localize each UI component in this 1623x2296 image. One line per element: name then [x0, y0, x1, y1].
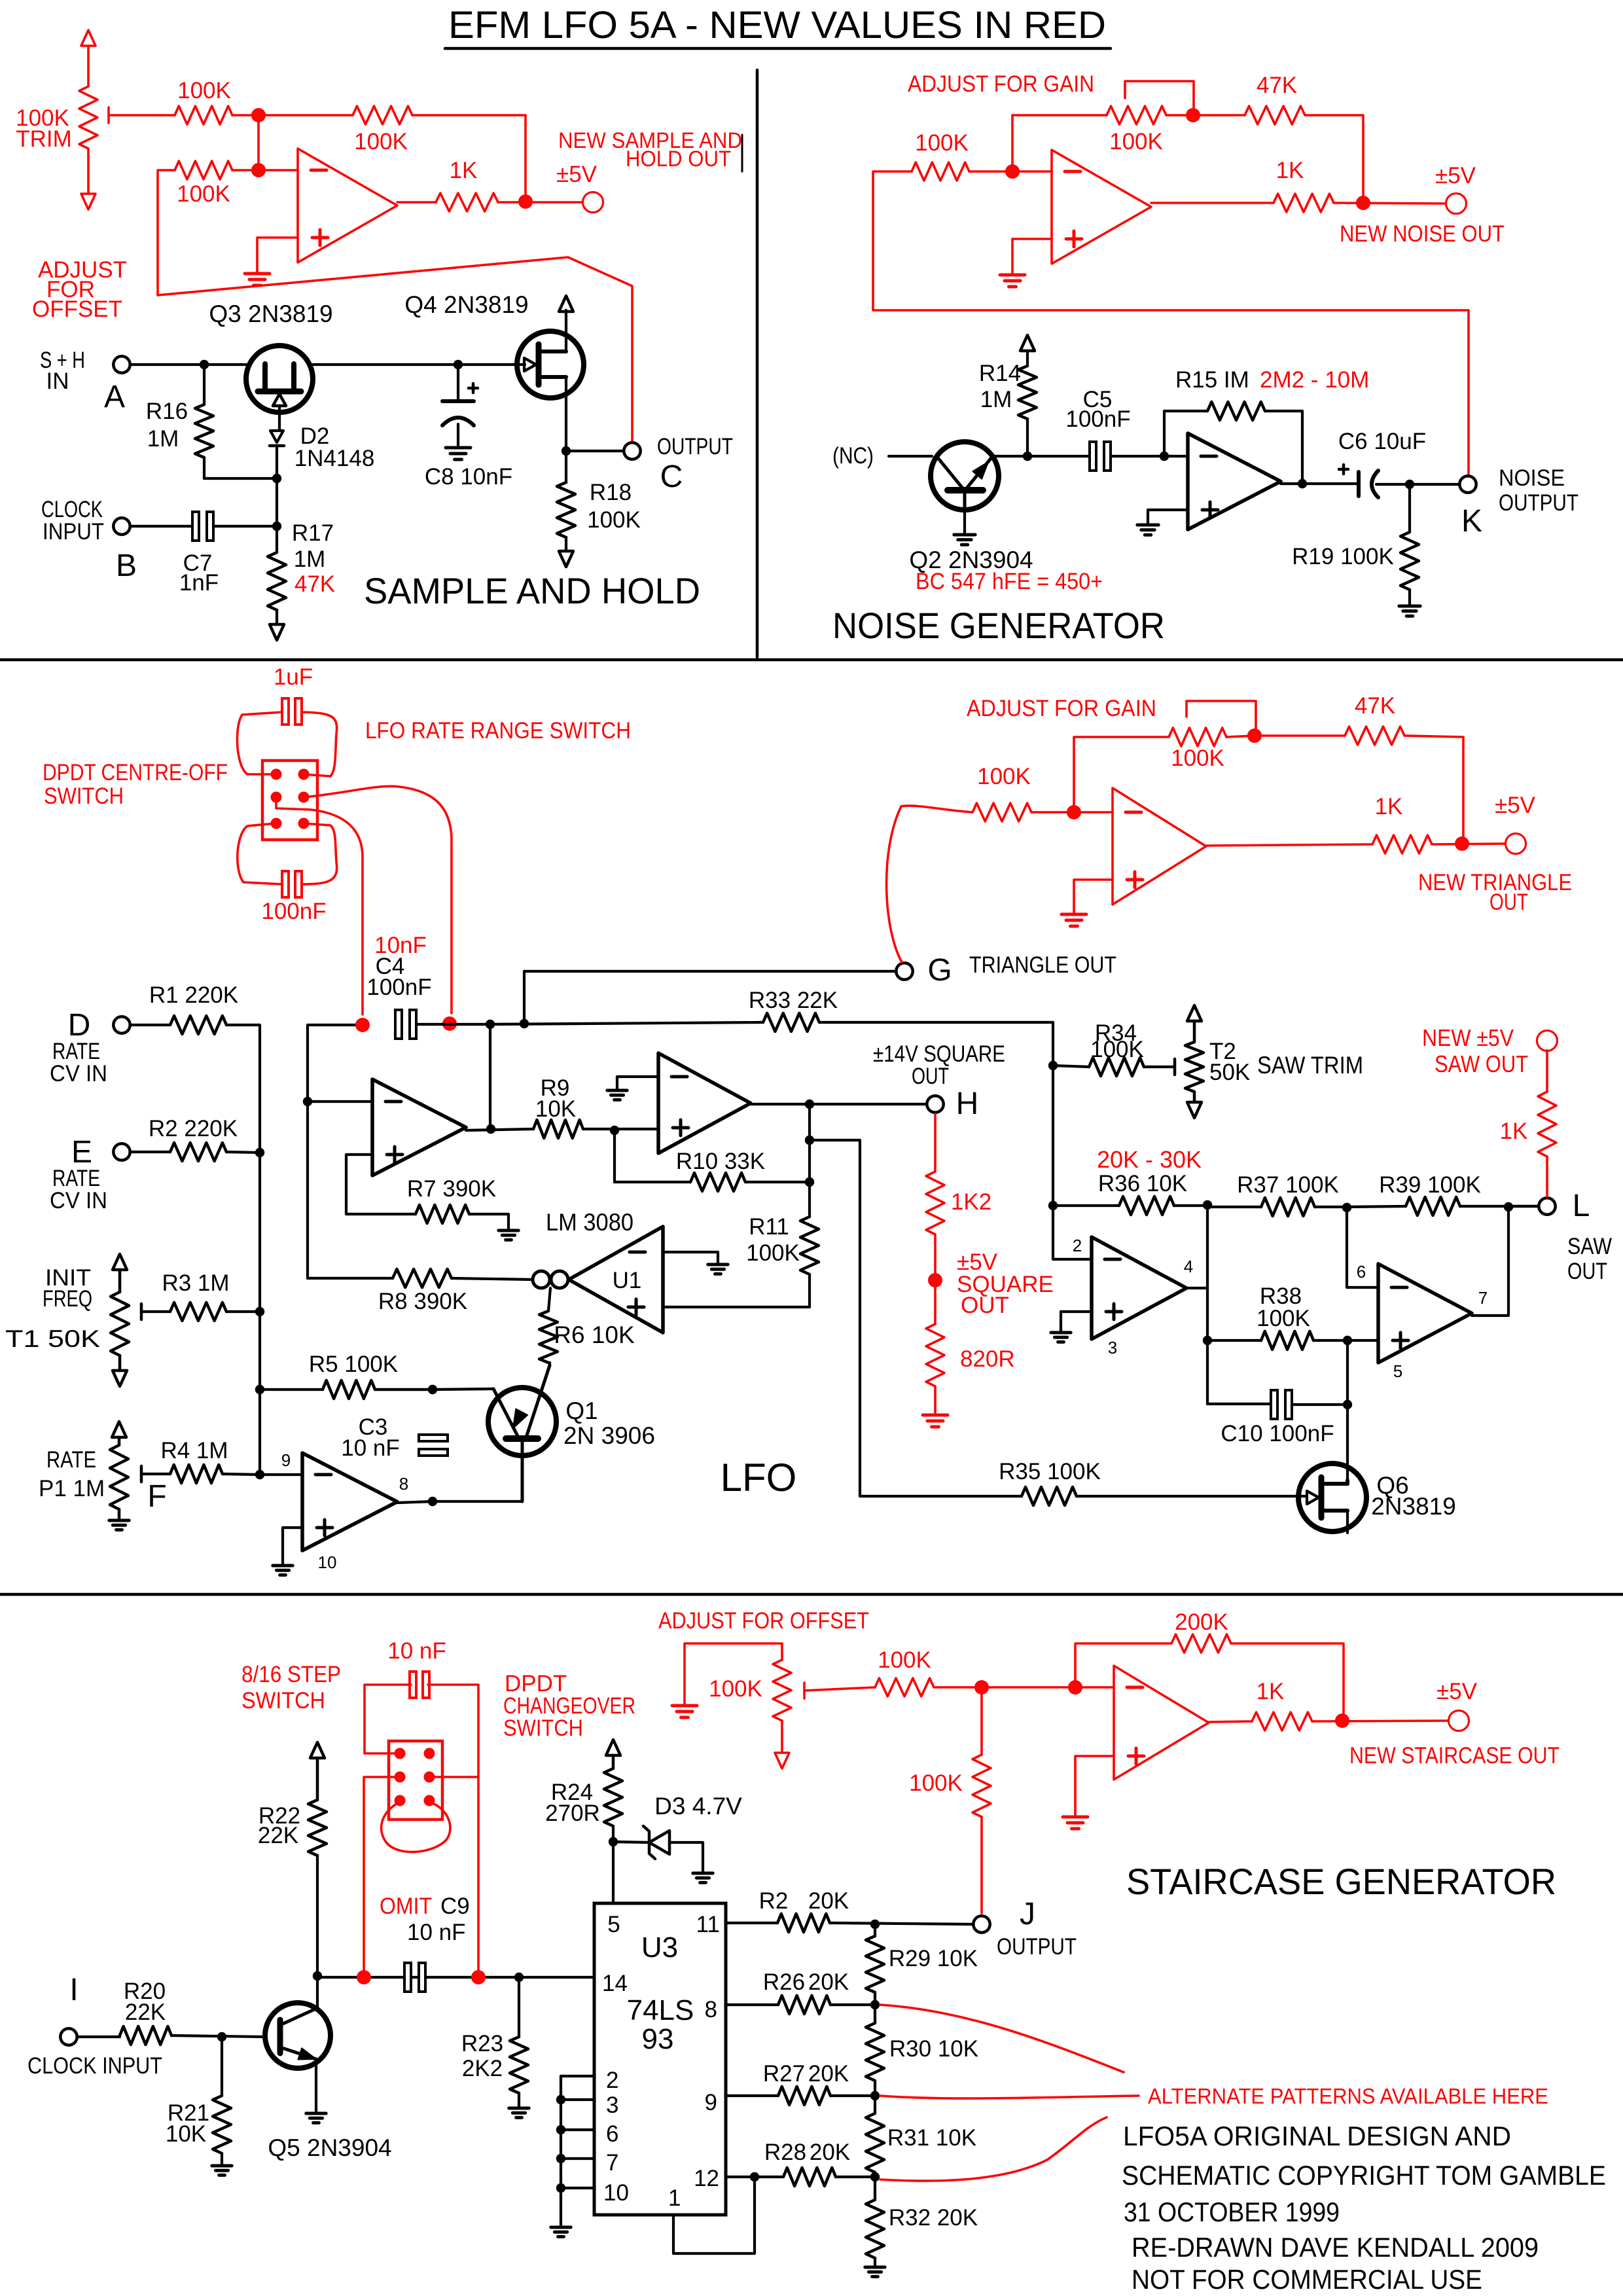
- resistor 100K (S&H feedback): [353, 106, 412, 124]
- pot T2 50K saw trim: [1187, 1005, 1202, 1021]
- node junction R28: [750, 2172, 759, 2181]
- svg-text:1K: 1K: [1375, 794, 1403, 819]
- node D terminal RATE CV IN: [113, 1016, 130, 1033]
- svg-text:2: 2: [606, 2068, 618, 2093]
- node junction: [518, 194, 533, 209]
- svg-text:100nF: 100nF: [366, 975, 431, 1000]
- svg-text:10 nF: 10 nF: [407, 1920, 466, 1945]
- svg-text:47K: 47K: [1355, 693, 1395, 719]
- svg-text:C8 10nF: C8 10nF: [425, 464, 512, 490]
- wire output: [1209, 1721, 1252, 1722]
- wire output to C6: [1281, 482, 1356, 485]
- svg-text:R16: R16: [146, 399, 188, 424]
- resistor R10 33K: [615, 1181, 690, 1183]
- triangle bus: [490, 1022, 763, 1024]
- transistor Q2 2N3904 noise: [931, 442, 999, 510]
- U1 LM3080 OTA: [533, 1271, 550, 1288]
- wire alternate pattern 2: [880, 2096, 1139, 2098]
- svg-text:1uF: 1uF: [274, 664, 313, 690]
- svg-text:NOISE: NOISE: [1499, 465, 1565, 491]
- svg-text:U1: U1: [613, 1268, 642, 1293]
- svg-text:R4 1M: R4 1M: [160, 1438, 228, 1463]
- svg-text:2M2 - 10M: 2M2 - 10M: [1260, 367, 1369, 393]
- wire riser to G: [524, 971, 895, 1024]
- node junction R38 left: [1203, 1336, 1212, 1345]
- resistor R2 220K: [132, 1151, 170, 1153]
- svg-text:R27: R27: [763, 2061, 805, 2087]
- wire Q5 emitter to ground: [315, 2059, 317, 2112]
- svg-text:100K: 100K: [587, 507, 641, 533]
- svg-text:OUT: OUT: [961, 1293, 1009, 1318]
- wire comparator minus to ground: [617, 1077, 658, 1089]
- svg-text:SWITCH: SWITCH: [241, 1688, 325, 1713]
- svg-text:ADJUST FOR GAIN: ADJUST FOR GAIN: [967, 696, 1156, 721]
- resistor R39 100K: [1406, 1197, 1460, 1215]
- terminal NEW SAMPLE AND HOLD OUT: [583, 192, 603, 213]
- transistor Q1 2N3906: [488, 1388, 556, 1456]
- svg-text:TRIANGLE OUT: TRIANGLE OUT: [969, 952, 1116, 978]
- wire 100nF loop right: [302, 823, 337, 884]
- resistor R17 1M 47K: [268, 552, 286, 610]
- node junction R37/R39: [1342, 1203, 1351, 1212]
- node junction: [272, 474, 281, 483]
- svg-text:74LS: 74LS: [627, 1994, 694, 2026]
- node junction: [805, 1136, 814, 1145]
- svg-text:R23: R23: [461, 2031, 503, 2056]
- wire U1 minus to ground: [663, 1252, 718, 1263]
- node junction: [1335, 1713, 1349, 1728]
- wire 10nF left loop: [365, 1685, 411, 1753]
- wire B to C7: [132, 525, 192, 528]
- node junction: [251, 163, 266, 177]
- node junction: [805, 1177, 814, 1187]
- node junction C9 left red: [357, 1970, 371, 1984]
- svg-text:8: 8: [399, 1474, 408, 1494]
- resistor R4 1M: [140, 1466, 143, 1482]
- switch DPDT centre-off box: [262, 761, 317, 840]
- node junction C8: [454, 360, 463, 369]
- svg-text:14: 14: [602, 1971, 628, 1996]
- wire 100nF loop left: [238, 823, 282, 884]
- node junction bus R3: [255, 1307, 264, 1316]
- capacitor C10 100nF: [1271, 1390, 1277, 1419]
- ground red: [923, 1414, 948, 1417]
- svg-text:100K: 100K: [709, 1676, 762, 1702]
- svg-text:9: 9: [705, 2090, 717, 2115]
- svg-text:CV IN: CV IN: [50, 1061, 107, 1086]
- node junction: [1356, 196, 1370, 210]
- svg-text:R28: R28: [764, 2140, 806, 2165]
- svg-text:R11: R11: [749, 1214, 789, 1240]
- svg-text:20K: 20K: [808, 1888, 849, 1914]
- svg-text:2N3819: 2N3819: [1371, 1493, 1456, 1520]
- svg-text:8/16 STEP: 8/16 STEP: [241, 1662, 341, 1687]
- svg-text:93: 93: [642, 2023, 674, 2055]
- svg-text:RE-DRAWN DAVE KENDALL 2009: RE-DRAWN DAVE KENDALL 2009: [1132, 2232, 1539, 2263]
- wire G to 100K input: [887, 806, 972, 962]
- svg-text:R5 100K: R5 100K: [309, 1352, 398, 1377]
- svg-text:±5V: ±5V: [556, 162, 597, 187]
- wire 47K to output node: [1404, 736, 1463, 844]
- svg-text:Q3 2N3819: Q3 2N3819: [209, 300, 332, 327]
- svg-text:R2 220K: R2 220K: [149, 1116, 238, 1141]
- svg-text:200K: 200K: [1175, 1609, 1228, 1635]
- op-amp LFO integrator: [372, 1079, 466, 1175]
- wire + input to ground: [1012, 239, 1052, 274]
- node junction C3 bottom: [428, 1497, 437, 1506]
- node junction R24/D3: [609, 1837, 618, 1846]
- transistor Q4 2N3819: [517, 331, 584, 398]
- node junction R39 right: [1504, 1202, 1513, 1211]
- svg-text:ALTERNATE PATTERNS AVAILABLE H: ALTERNATE PATTERNS AVAILABLE HERE: [1148, 2084, 1548, 2108]
- wire U1 bias to R6: [548, 1288, 550, 1311]
- svg-text:1K: 1K: [1500, 1119, 1528, 1144]
- svg-text:100K: 100K: [1171, 745, 1224, 771]
- resistor 100K to J red: [980, 1687, 983, 1755]
- svg-text:R30 10K: R30 10K: [889, 2036, 978, 2062]
- svg-text:STAIRCASE GENERATOR: STAIRCASE GENERATOR: [1126, 1861, 1556, 1902]
- svg-text:R1 220K: R1 220K: [149, 982, 238, 1008]
- svg-text:DPDT CENTRE-OFF: DPDT CENTRE-OFF: [43, 760, 228, 785]
- wire alternate pattern 1: [880, 2005, 1124, 2072]
- wire to R35 branch: [810, 1140, 1022, 1496]
- svg-text:NEW NOISE OUT: NEW NOISE OUT: [1340, 221, 1505, 247]
- capacitor C3 10nF: [419, 1435, 448, 1441]
- svg-text:SAW OUT: SAW OUT: [1435, 1050, 1528, 1077]
- resistor R24 270R: [606, 1740, 620, 1755]
- resistor R14 1M: [1026, 419, 1029, 456]
- svg-text:R35 100K: R35 100K: [999, 1459, 1101, 1484]
- terminal C OUTPUT: [624, 442, 640, 459]
- terminal NEW TRIANGLE OUT: [1506, 834, 1526, 854]
- resistor R33 22K: [763, 1013, 819, 1031]
- svg-text:R15 IM: R15 IM: [1175, 367, 1249, 393]
- capacitor C4 100nF: [395, 1010, 402, 1039]
- transistor Q6 2N3819: [1298, 1463, 1366, 1532]
- svg-text:CV IN: CV IN: [50, 1188, 107, 1213]
- svg-text:1nF: 1nF: [179, 570, 219, 596]
- capacitor 1uF switch: [282, 698, 289, 725]
- svg-text:RATE: RATE: [46, 1447, 96, 1473]
- wire junction down to R8: [306, 1102, 309, 1278]
- wire Q4 source to output node: [565, 377, 567, 451]
- svg-text:OMIT: OMIT: [380, 1893, 432, 1919]
- wire output down: [808, 1104, 811, 1182]
- section divider horizontal middle/bottom: [0, 1593, 1623, 1596]
- node junction op6 in: [1068, 1680, 1082, 1695]
- node junction ladder 2: [870, 2000, 880, 2009]
- svg-text:100K: 100K: [909, 1770, 963, 1796]
- resistor 820R red: [934, 1280, 936, 1324]
- resistor R7 390K: [416, 1205, 469, 1223]
- wire U3 pin1 loop: [673, 2177, 755, 2253]
- wire + to ground: [1075, 1756, 1114, 1816]
- node junction: [805, 1100, 814, 1109]
- svg-text:R7 390K: R7 390K: [407, 1176, 496, 1202]
- wire to op-amp: [969, 170, 1052, 173]
- svg-text:CLOCK INPUT: CLOCK INPUT: [27, 2053, 162, 2079]
- resistor 1K: [436, 193, 498, 211]
- svg-text:R26: R26: [763, 1969, 805, 1995]
- wire C7 to node: [213, 525, 277, 528]
- wire Q2 to C5: [992, 455, 1090, 457]
- resistor R3 1M: [140, 1304, 143, 1319]
- svg-text:820R: 820R: [960, 1346, 1015, 1372]
- ground: [1000, 274, 1025, 277]
- svg-text:22K: 22K: [125, 2000, 166, 2025]
- wire integrator minus: [308, 1100, 372, 1103]
- svg-text:100K: 100K: [177, 78, 231, 103]
- wire changeover blob: [382, 1802, 450, 1852]
- wire R1 to bus: [226, 1025, 260, 1153]
- resistor R34 100K: [1053, 1066, 1089, 1067]
- svg-text:10K: 10K: [535, 1096, 576, 1122]
- svg-text:ADJUST FOR GAIN: ADJUST FOR GAIN: [908, 71, 1094, 97]
- node junction R34: [1048, 1061, 1058, 1070]
- capacitor C9 10nF: [404, 1963, 411, 1992]
- wire 200K to output: [1231, 1643, 1344, 1721]
- svg-text:R14: R14: [979, 361, 1021, 386]
- wire + to ground: [1074, 880, 1113, 913]
- wire alternate pattern 3: [880, 2117, 1107, 2181]
- svg-text:1K: 1K: [1257, 1679, 1285, 1704]
- svg-text:LFO: LFO: [721, 1456, 797, 1499]
- wire Q5 collector: [316, 1976, 319, 2008]
- svg-text:FREQ: FREQ: [43, 1286, 92, 1312]
- op-amp LFO buffer B (pins 6/5/7): [1378, 1264, 1472, 1363]
- resistor 100K (S&H inverting): [175, 161, 232, 179]
- svg-text:±5V: ±5V: [1435, 163, 1476, 188]
- wire bus: [259, 1390, 261, 1475]
- svg-text:D3 4.7V: D3 4.7V: [654, 1793, 742, 1820]
- IC U3 74LS93: [594, 1903, 726, 2215]
- svg-text:6: 6: [606, 2121, 618, 2147]
- op-amp S&H new output: [298, 149, 397, 262]
- svg-text:270R: 270R: [545, 1801, 600, 1826]
- wire: [1334, 203, 1446, 204]
- svg-text:ADJUST FOR OFFSET: ADJUST FOR OFFSET: [658, 1608, 869, 1634]
- node junction R23: [514, 1973, 524, 1982]
- svg-text:Q4 2N3819: Q4 2N3819: [404, 291, 528, 318]
- capacitor C7 1nF: [192, 512, 199, 541]
- resistor R29 10K: [874, 1924, 876, 1936]
- switch 8/16 step box: [389, 1741, 442, 1820]
- wire NC to Q2: [889, 455, 932, 457]
- resistor R6 10K: [539, 1311, 558, 1363]
- node junction: [1067, 805, 1081, 819]
- node junction: [200, 360, 209, 369]
- terminal NEW NOISE OUT: [1446, 194, 1467, 214]
- svg-text:OUTPUT: OUTPUT: [657, 434, 733, 459]
- svg-text:Q5 2N3904: Q5 2N3904: [268, 2134, 391, 2161]
- svg-text:100K: 100K: [354, 129, 408, 154]
- wire C3 top node: [375, 1388, 433, 1391]
- wire + to ground: [1148, 510, 1188, 524]
- svg-text:TRIM: TRIM: [16, 126, 72, 152]
- terminal J OUTPUT: [973, 1916, 990, 1932]
- op-amp noise new output: [1052, 150, 1151, 264]
- svg-text:100nF: 100nF: [261, 899, 326, 924]
- svg-text:A: A: [104, 380, 125, 414]
- wire 1uF loop right: [302, 712, 337, 776]
- wire U3 grounded pins 2/3/6/7/10: [561, 2075, 594, 2077]
- svg-text:2K2: 2K2: [462, 2056, 503, 2081]
- ground: [245, 272, 270, 276]
- svg-text:1K: 1K: [1276, 158, 1304, 183]
- wire to clock node: [276, 478, 278, 552]
- wire R10 from + node: [613, 1130, 616, 1182]
- resistor R19 100K: [1408, 484, 1411, 532]
- node junction bus R4: [255, 1470, 264, 1479]
- wire L node: [1508, 1205, 1537, 1208]
- wire: [232, 169, 298, 171]
- wire inverting feedback riser: [1011, 115, 1014, 171]
- node junction C4 right red: [442, 1016, 457, 1031]
- svg-text:BC 547 hFE = 450+: BC 547 hFE = 450+: [916, 569, 1103, 594]
- svg-text:IN: IN: [46, 368, 69, 394]
- wire junction to op4 minus: [1347, 1208, 1378, 1287]
- wire bus down to integrator out: [489, 1024, 491, 1129]
- op-amp staircase new output: [1114, 1666, 1209, 1780]
- wire clock node to U3 pin 14: [317, 1976, 594, 1979]
- wire output: [397, 201, 436, 204]
- svg-text:47K: 47K: [294, 571, 335, 597]
- resistor 200K: [1171, 1634, 1231, 1653]
- wire C10 right to + node: [1293, 1403, 1347, 1406]
- svg-text:1: 1: [668, 2185, 681, 2211]
- node junction C9 right red: [471, 1970, 486, 1984]
- op-amp LFO comparator B: [658, 1053, 751, 1153]
- terminal K NOISE OUTPUT: [1459, 476, 1476, 492]
- resistor R23 2K2: [518, 1977, 520, 2037]
- terminal G TRIANGLE OUT: [896, 963, 912, 979]
- resistor 1K2 red: [934, 1114, 936, 1172]
- wire switch mid-left to C4 left: [276, 797, 363, 1014]
- svg-text:SWITCH: SWITCH: [503, 1715, 583, 1741]
- svg-text:SWITCH: SWITCH: [44, 783, 124, 809]
- svg-text:HOLD OUT: HOLD OUT: [626, 147, 731, 171]
- svg-text:OUTPUT: OUTPUT: [997, 1934, 1077, 1960]
- svg-text:R2: R2: [759, 1888, 789, 1914]
- wire feedback riser: [1074, 737, 1169, 812]
- svg-text:9: 9: [281, 1450, 291, 1470]
- svg-text:LM 3080: LM 3080: [546, 1209, 633, 1236]
- capacitor 100nF switch: [282, 871, 289, 897]
- node junction: [1455, 836, 1469, 851]
- svg-text:31 OCTOBER 1999: 31 OCTOBER 1999: [1124, 2197, 1340, 2227]
- wire feedback R15: [1164, 411, 1207, 456]
- wire switch mid-right to C4 right: [304, 786, 452, 1013]
- svg-text:L: L: [1573, 1189, 1590, 1223]
- node A terminal: [113, 356, 130, 372]
- resistor R18 100K: [565, 451, 567, 482]
- svg-text:2N 3906: 2N 3906: [563, 1422, 655, 1449]
- node junction R36 right: [1203, 1200, 1212, 1210]
- transistor Q3 2N3819: [246, 346, 313, 412]
- svg-text:EFM LFO 5A - NEW VALUES IN RE: EFM LFO 5A - NEW VALUES IN RED: [448, 4, 1106, 46]
- wire wiper to 100K input: [804, 1687, 875, 1691]
- pot P1 1M RATE: [112, 1422, 126, 1437]
- node junction: [1298, 479, 1307, 488]
- trimmer symbol triangle gain: [1186, 701, 1256, 736]
- node junction R14: [1023, 452, 1032, 461]
- svg-text:R36 10K: R36 10K: [1098, 1171, 1187, 1196]
- wire C4 right to bus: [416, 1023, 490, 1026]
- wire bus: [259, 1153, 261, 1312]
- svg-text:B: B: [116, 548, 137, 583]
- section divider horizontal top/middle: [0, 658, 1623, 662]
- node junction: [1186, 108, 1200, 122]
- wire 1uF loop left: [237, 712, 282, 774]
- resistor R22 22K: [310, 1742, 325, 1758]
- svg-text:1K: 1K: [450, 158, 478, 183]
- terminal H square out: [927, 1096, 943, 1112]
- ground Q2: [963, 510, 966, 533]
- wire R33 to right riser: [819, 1022, 1092, 1259]
- resistor R16 1M: [203, 365, 205, 404]
- svg-text:C9: C9: [440, 1893, 470, 1919]
- resistor 100K noise feedback: [1012, 114, 1107, 117]
- node E terminal RATE CV IN: [113, 1143, 130, 1160]
- svg-text:20K: 20K: [808, 1969, 849, 1995]
- resistor R35 100K: [1022, 1487, 1077, 1505]
- resistor 1K red saw: [1537, 1031, 1558, 1051]
- svg-text:1M: 1M: [980, 387, 1012, 412]
- svg-text:SAW: SAW: [1567, 1234, 1612, 1259]
- svg-text:20K: 20K: [808, 2061, 849, 2087]
- wire: [232, 114, 353, 117]
- svg-text:D: D: [68, 1008, 91, 1043]
- wire Q3 to C8/Q4: [313, 363, 525, 366]
- resistor 47K noise: [1245, 106, 1305, 124]
- capacitor C5 100nF: [1090, 442, 1096, 471]
- svg-text:10 nF: 10 nF: [341, 1435, 400, 1461]
- svg-text:SCHEMATIC COPYRIGHT TOM GAMBLE: SCHEMATIC COPYRIGHT TOM GAMBLE: [1122, 2160, 1606, 2191]
- node junction collector: [313, 1971, 322, 1981]
- svg-text:3: 3: [606, 2092, 618, 2118]
- wire op4 output up to L: [1472, 1207, 1508, 1316]
- node junction: [303, 1097, 312, 1106]
- svg-text:10: 10: [603, 2180, 629, 2206]
- node junction: [251, 108, 266, 122]
- node junction: [562, 446, 571, 456]
- node junction bus R5: [255, 1385, 264, 1394]
- transistor Q5 2N3904: [265, 2003, 330, 2068]
- svg-text:R8 390K: R8 390K: [378, 1289, 467, 1314]
- node junction trimmer: [1247, 728, 1262, 743]
- resistor R20 22K: [79, 2036, 120, 2038]
- resistor R9 10K: [533, 1120, 583, 1138]
- svg-text:OUT: OUT: [912, 1064, 949, 1089]
- op-amp triangle new output: [1113, 788, 1206, 905]
- wire comparator output: [751, 1103, 925, 1105]
- resistor R26 20K pin8: [726, 2003, 778, 2006]
- resistor R1 220K: [132, 1024, 170, 1026]
- wire trim wiper to R: [109, 114, 175, 117]
- wire C5 to op-amp: [1111, 455, 1188, 457]
- svg-text:R32 20K: R32 20K: [889, 2205, 978, 2231]
- svg-text:R29 10K: R29 10K: [889, 1946, 978, 1971]
- svg-text:U3: U3: [641, 1931, 678, 1964]
- resistor R37 100K: [1207, 1206, 1261, 1208]
- wire output: [1206, 844, 1372, 846]
- node junction: [1160, 452, 1169, 461]
- svg-text:OUT: OUT: [1489, 889, 1528, 915]
- wire inverting input: [257, 115, 260, 170]
- trimmer symbol noise gain: [1125, 81, 1194, 115]
- node junction: [486, 1124, 495, 1134]
- node junction: [486, 1020, 495, 1029]
